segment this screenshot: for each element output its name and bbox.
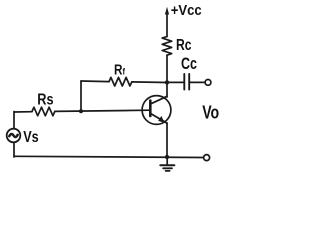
source Vs [7, 129, 21, 143]
wire: Vcc rail down to resistor Rc [166, 12, 168, 37]
wire: capacitor to top output terminal [190, 81, 205, 83]
resistor Rs [32, 107, 55, 116]
svg-text:+Vcc: +Vcc [171, 3, 202, 19]
wire: bottom rail [14, 156, 204, 157]
wire: Rf row left [81, 80, 109, 83]
node: feedback junction [79, 109, 83, 113]
wire: Vs top lead [13, 112, 15, 129]
svg-text:Rc: Rc [176, 37, 192, 54]
terminal: bottom output [204, 155, 210, 161]
capacitor Cc [183, 74, 185, 90]
wire: collector lead into transistor [166, 82, 168, 97]
wire: base row right to transistor [55, 110, 150, 111]
node: emitter ground junction [165, 155, 169, 159]
+Vcc supply arrow [165, 7, 169, 15]
wire: Rc to collector node [166, 55, 168, 82]
wire: base row left [14, 111, 32, 113]
transistor Q1 [142, 96, 171, 125]
resistor Rf [109, 77, 132, 86]
wire: collector node to capacitor Cc [167, 81, 183, 83]
svg-text:Vo: Vo [202, 102, 219, 123]
wire: Rf row right to collector node [132, 81, 167, 84]
wire: emitter lead down [166, 123, 168, 157]
svg-text:Vs: Vs [23, 129, 39, 146]
resistor Rc [162, 37, 172, 56]
terminal: top output [205, 80, 211, 86]
node: collector junction [165, 80, 169, 84]
svg-text:Rs: Rs [37, 92, 53, 109]
svg-text:Rf: Rf [114, 62, 126, 78]
ground [160, 157, 174, 171]
wire: feedback riser [80, 81, 82, 111]
svg-text:Cc: Cc [181, 54, 197, 73]
wire: Vs bottom lead [13, 142, 15, 157]
